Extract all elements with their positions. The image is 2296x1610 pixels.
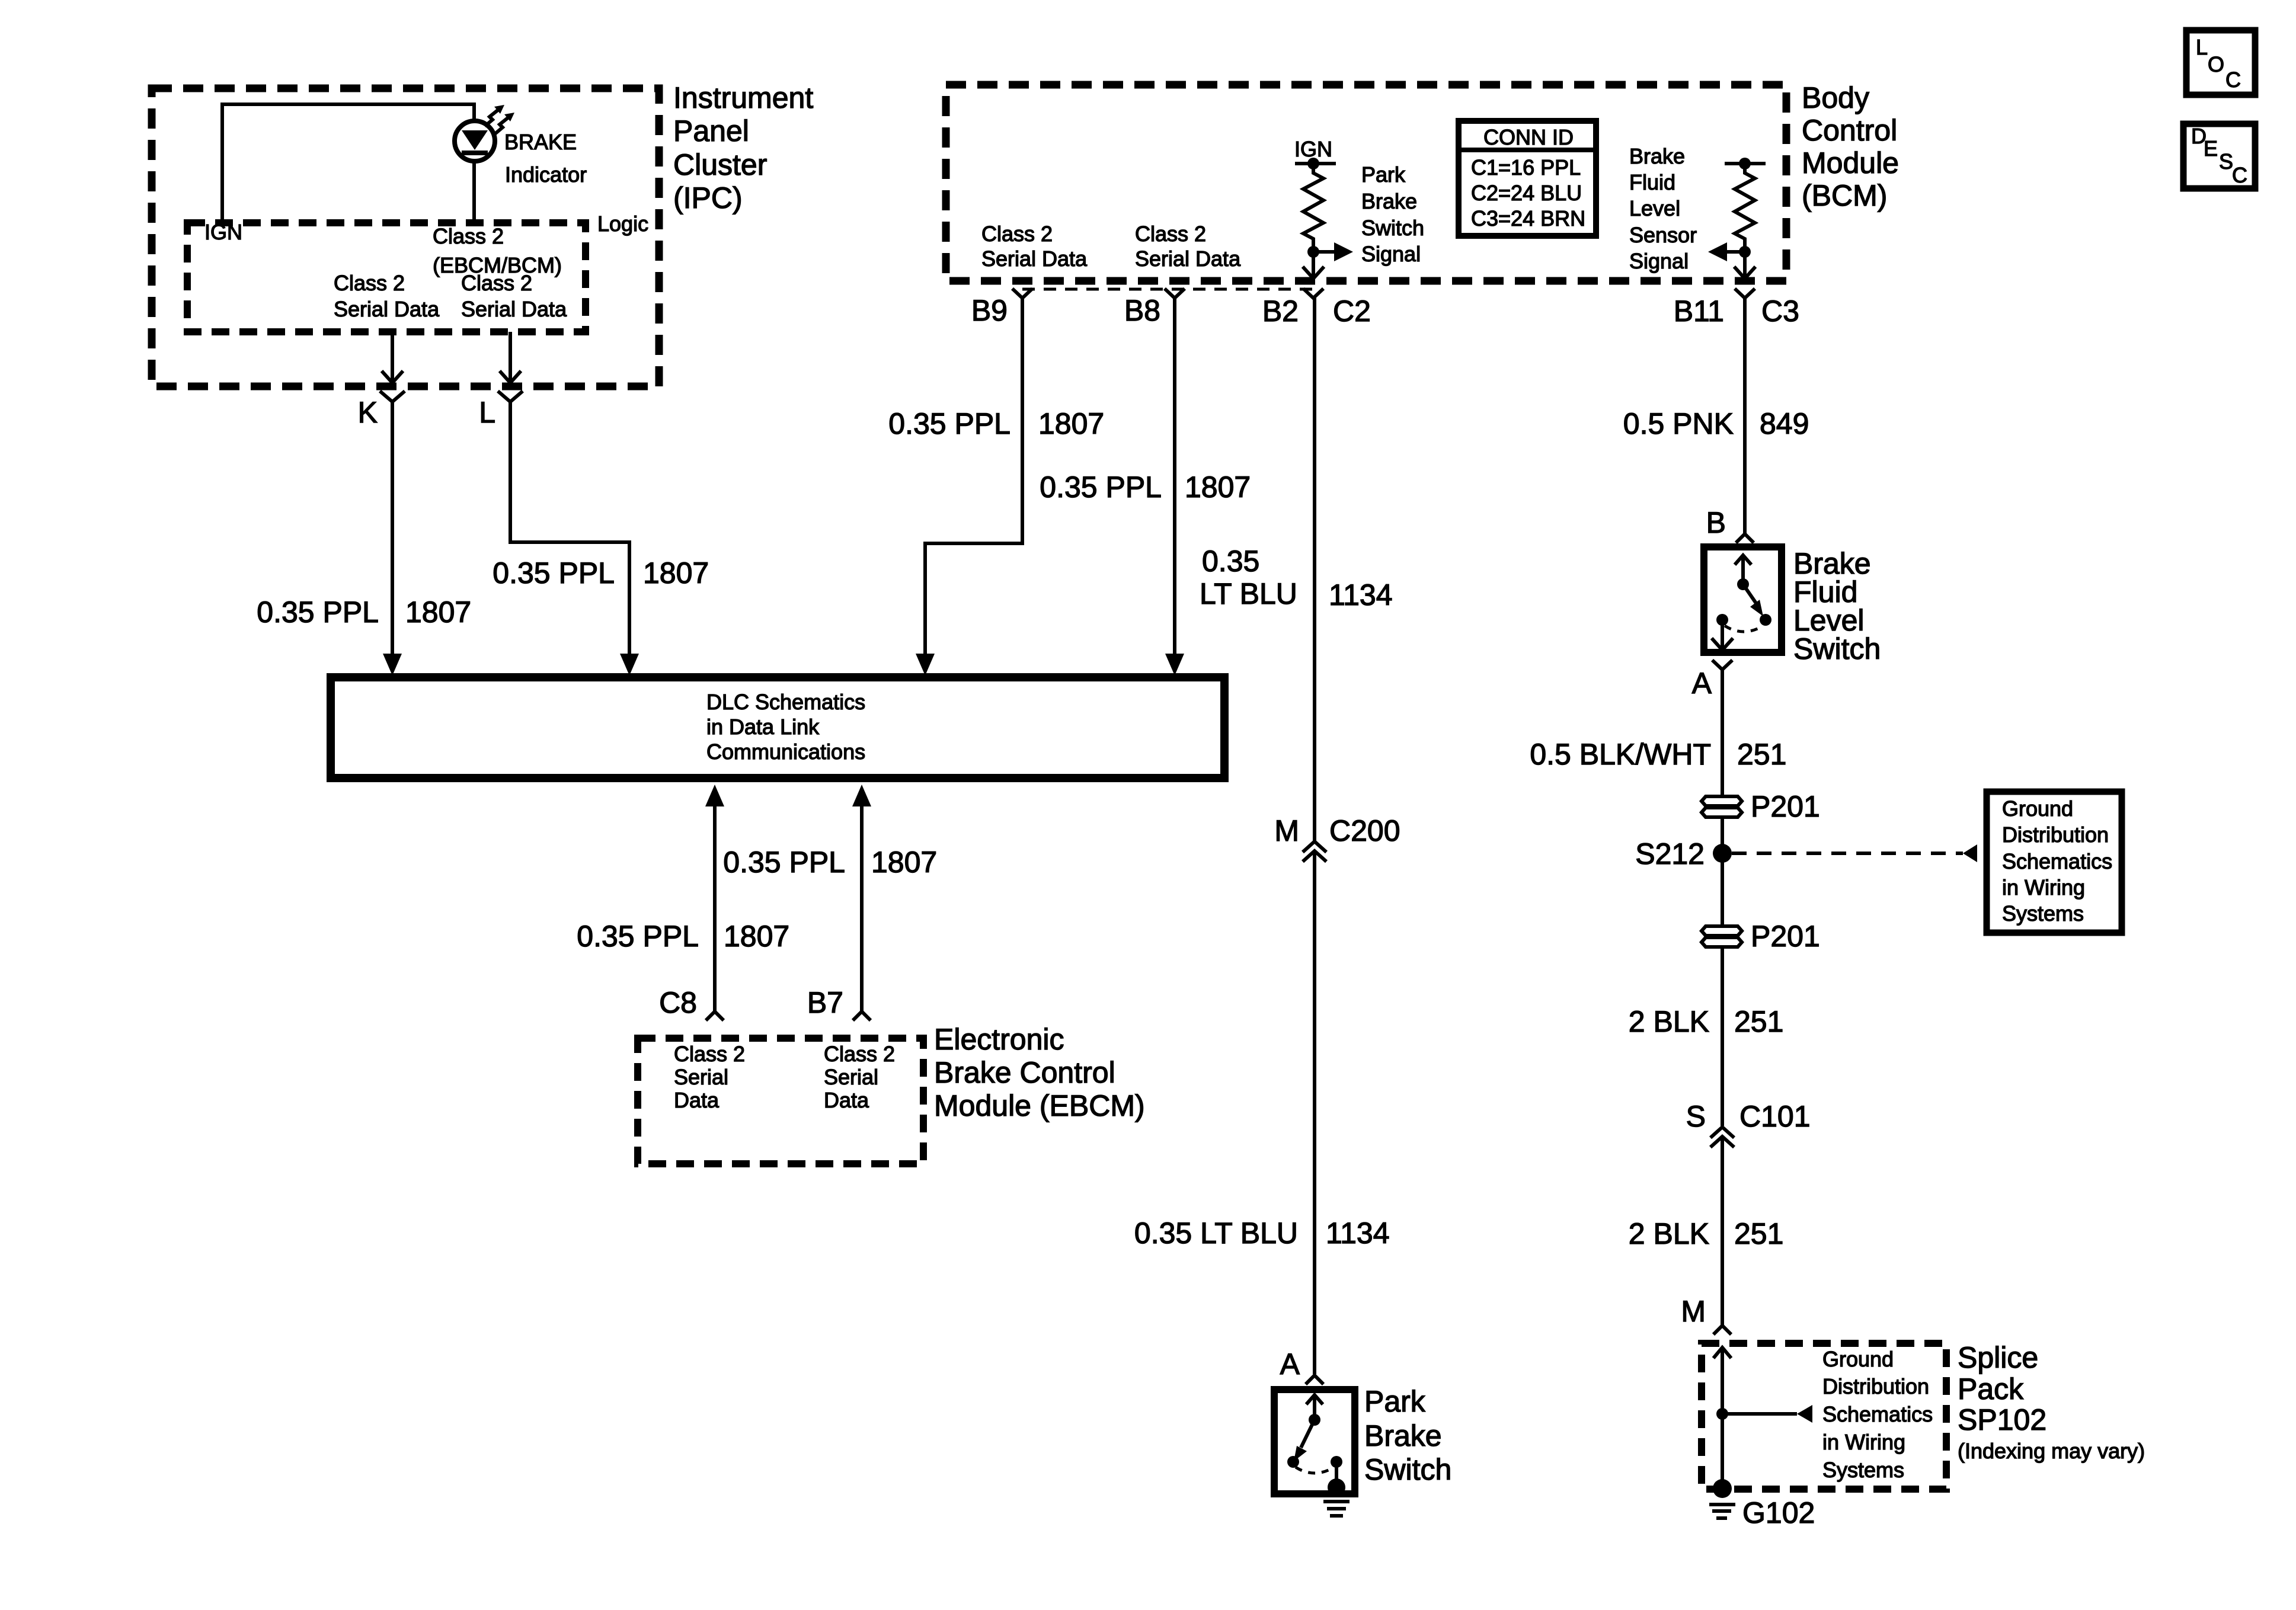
svg-text:B: B bbox=[1706, 506, 1726, 539]
svg-text:Class 2: Class 2 bbox=[334, 271, 405, 295]
LED light arrows bbox=[485, 110, 498, 126]
svg-text:1807: 1807 bbox=[643, 556, 709, 590]
svg-text:B2: B2 bbox=[1262, 295, 1299, 328]
connector pin K bbox=[380, 391, 405, 402]
svg-text:251: 251 bbox=[1737, 738, 1786, 771]
svg-text:P201: P201 bbox=[1751, 920, 1820, 953]
svg-text:Switch: Switch bbox=[1793, 632, 1881, 665]
svg-text:IGN: IGN bbox=[1294, 137, 1332, 161]
node junction dot bbox=[1307, 246, 1319, 258]
wire L inside IPC with arrow at box edge bbox=[509, 332, 512, 382]
svg-text:C2=24 BLU: C2=24 BLU bbox=[1471, 181, 1582, 205]
wire from EBCM B7 up into DLC bbox=[860, 805, 864, 1012]
svg-text:0.35 PPL: 0.35 PPL bbox=[888, 407, 1011, 440]
svg-text:C3: C3 bbox=[1761, 295, 1799, 328]
svg-text:0.35 PPL: 0.35 PPL bbox=[257, 596, 379, 629]
svg-text:Level: Level bbox=[1629, 196, 1680, 220]
svg-text:Signal: Signal bbox=[1361, 242, 1421, 266]
svg-text:Panel: Panel bbox=[673, 114, 749, 148]
svg-text:in Wiring: in Wiring bbox=[2002, 875, 2085, 900]
svg-text:S212: S212 bbox=[1635, 837, 1705, 870]
svg-text:Signal: Signal bbox=[1629, 249, 1689, 273]
svg-text:E: E bbox=[2204, 136, 2218, 161]
svg-text:A: A bbox=[1280, 1347, 1300, 1381]
svg-text:1134: 1134 bbox=[1329, 578, 1393, 612]
svg-text:Module (EBCM): Module (EBCM) bbox=[934, 1089, 1145, 1122]
wire B8 down to DLC bbox=[1173, 298, 1176, 655]
svg-text:Serial: Serial bbox=[674, 1065, 728, 1089]
LED diode triangle bbox=[462, 130, 488, 150]
ground symbol G102 bbox=[1709, 1503, 1735, 1506]
switch right contact dot bbox=[1760, 614, 1771, 626]
wire IGN to BRAKE indicator bbox=[222, 104, 474, 223]
connector pin B2 / C2 bbox=[1303, 289, 1323, 298]
svg-text:Ground: Ground bbox=[1822, 1347, 1894, 1371]
LED cathode bar bbox=[462, 151, 488, 155]
svg-text:C101: C101 bbox=[1739, 1100, 1811, 1133]
svg-text:Body: Body bbox=[1802, 81, 1869, 114]
svg-text:2 BLK: 2 BLK bbox=[1629, 1005, 1709, 1038]
svg-text:(Indexing may vary): (Indexing may vary) bbox=[1958, 1439, 2145, 1463]
svg-text:M: M bbox=[1681, 1295, 1706, 1328]
svg-text:251: 251 bbox=[1734, 1217, 1783, 1250]
svg-text:Class 2: Class 2 bbox=[674, 1042, 745, 1066]
svg-text:O: O bbox=[2208, 52, 2224, 76]
svg-text:2 BLK: 2 BLK bbox=[1629, 1217, 1709, 1250]
ground symbol below park brake switch bbox=[1323, 1500, 1350, 1503]
svg-text:C1=16 PPL: C1=16 PPL bbox=[1471, 155, 1581, 180]
svg-text:Park: Park bbox=[1361, 162, 1406, 187]
wire LED cathode to logic box bbox=[472, 161, 476, 223]
svg-text:0.35: 0.35 bbox=[1202, 545, 1259, 578]
svg-text:B7: B7 bbox=[807, 986, 843, 1019]
svg-text:Brake: Brake bbox=[1361, 189, 1417, 213]
switch right contact dot with stem bbox=[1331, 1456, 1342, 1468]
svg-text:Systems: Systems bbox=[1822, 1458, 1904, 1482]
svg-text:CONN ID: CONN ID bbox=[1483, 125, 1574, 149]
connector P201 lower grommet bbox=[1702, 926, 1742, 947]
svg-text:C200: C200 bbox=[1329, 814, 1400, 847]
svg-text:(BCM): (BCM) bbox=[1802, 179, 1887, 212]
svg-text:in Wiring: in Wiring bbox=[1822, 1430, 1905, 1454]
svg-text:SP102: SP102 bbox=[1958, 1403, 2046, 1436]
svg-text:Serial Data: Serial Data bbox=[1135, 247, 1241, 271]
svg-text:Sensor: Sensor bbox=[1629, 223, 1697, 247]
svg-text:M: M bbox=[1274, 814, 1299, 847]
svg-text:Park: Park bbox=[1364, 1385, 1426, 1418]
dashed reference line from S212 bbox=[1732, 852, 1963, 855]
connector P201 upper grommet bbox=[1702, 796, 1742, 817]
svg-text:G102: G102 bbox=[1742, 1496, 1815, 1529]
wire L down and over to DLC bbox=[510, 402, 629, 655]
arrow at box bottom edge bbox=[1712, 638, 1733, 650]
wire from EBCM C8 up into DLC bbox=[713, 805, 717, 1012]
svg-text:Brake Control: Brake Control bbox=[934, 1056, 1115, 1089]
svg-text:Schematics: Schematics bbox=[2002, 849, 2112, 873]
svg-text:Switch: Switch bbox=[1361, 216, 1424, 240]
svg-text:1807: 1807 bbox=[871, 846, 937, 879]
wire inside splice pack with up arrow bbox=[1713, 1347, 1731, 1358]
ground node G102 dot bbox=[1713, 1479, 1732, 1498]
svg-text:Fluid: Fluid bbox=[1629, 170, 1675, 194]
svg-text:Systems: Systems bbox=[2002, 901, 2084, 926]
reference arrow into ground distribution box bbox=[1963, 844, 1977, 862]
svg-text:IGN: IGN bbox=[204, 220, 242, 244]
svg-text:Pack: Pack bbox=[1958, 1372, 2024, 1406]
svg-text:LT BLU: LT BLU bbox=[1200, 577, 1297, 610]
svg-text:1807: 1807 bbox=[1038, 407, 1104, 440]
logic box inside IPC bbox=[187, 223, 586, 332]
resistor brake fluid sensor pull-up bbox=[1735, 164, 1755, 252]
reference line with arrow in splice pack bbox=[1722, 1412, 1797, 1416]
svg-text:Serial Data: Serial Data bbox=[334, 297, 440, 321]
connector pin B8 bbox=[1165, 289, 1185, 298]
svg-text:S: S bbox=[1686, 1100, 1706, 1133]
wire B11/C3 down to brake fluid level switch bbox=[1743, 298, 1747, 534]
svg-text:Instrument: Instrument bbox=[673, 81, 813, 114]
switch box: Brake Fluid Level Switch bbox=[1704, 547, 1782, 652]
svg-text:0.5 BLK/WHT: 0.5 BLK/WHT bbox=[1530, 738, 1711, 771]
wire B9 down and over to DLC bbox=[925, 298, 1022, 655]
connector pin L bbox=[498, 391, 523, 402]
svg-text:B8: B8 bbox=[1124, 294, 1160, 327]
wire B11 inside BCM with arrow at box edge bbox=[1743, 252, 1747, 277]
svg-text:Class 2: Class 2 bbox=[981, 222, 1053, 246]
switch pivot dot bbox=[1737, 578, 1749, 590]
svg-text:Brake: Brake bbox=[1364, 1419, 1442, 1452]
svg-text:Logic: Logic bbox=[597, 212, 648, 236]
connector pin B9 bbox=[1012, 289, 1032, 298]
wire K down to DLC bbox=[391, 402, 394, 655]
reference box: DLC Schematics in Data Link Communications bbox=[331, 677, 1224, 778]
svg-text:Class 2: Class 2 bbox=[824, 1042, 895, 1066]
node brake fluid sensor dot and bar bbox=[1725, 162, 1766, 165]
svg-text:1134: 1134 bbox=[1326, 1217, 1390, 1250]
svg-text:Class 2: Class 2 bbox=[461, 271, 532, 295]
svg-text:A: A bbox=[1692, 667, 1712, 700]
ground node dot of park brake switch bbox=[1328, 1478, 1345, 1496]
svg-text:0.35 PPL: 0.35 PPL bbox=[1040, 470, 1162, 504]
svg-text:Switch: Switch bbox=[1364, 1453, 1451, 1486]
svg-text:0.35 PPL: 0.35 PPL bbox=[577, 920, 699, 953]
svg-text:Data: Data bbox=[674, 1088, 720, 1112]
svg-text:in Data Link: in Data Link bbox=[706, 715, 820, 739]
wire C101 to splice pack bbox=[1721, 1139, 1724, 1326]
svg-text:B9: B9 bbox=[971, 294, 1008, 327]
svg-text:C: C bbox=[2232, 163, 2247, 187]
svg-text:0.35 PPL: 0.35 PPL bbox=[493, 556, 615, 590]
node IGN dot and bar bbox=[1295, 162, 1336, 165]
switch pivot dot bbox=[1309, 1414, 1320, 1426]
wire P201 to C101 bbox=[1721, 946, 1724, 1126]
signal arrow left: Brake Fluid Level Sensor Signal bbox=[1727, 250, 1745, 254]
switch moving contact arm with arrowhead bbox=[1743, 584, 1756, 603]
node junction dot bbox=[1739, 246, 1751, 258]
switch throw dashed arc bbox=[1725, 626, 1763, 632]
module box: Electronic Brake Control Module (EBCM) dashed outline bbox=[638, 1038, 923, 1164]
switch left contact dot bbox=[1287, 1456, 1299, 1468]
svg-text:Data: Data bbox=[824, 1088, 869, 1112]
svg-text:Module: Module bbox=[1802, 146, 1899, 180]
svg-text:Splice: Splice bbox=[1958, 1341, 2038, 1374]
switch contact arrow up bbox=[1735, 555, 1751, 565]
svg-text:K: K bbox=[358, 396, 378, 429]
wire B2 to C200 bbox=[1313, 298, 1316, 841]
svg-text:1807: 1807 bbox=[405, 596, 471, 629]
svg-text:Class 2: Class 2 bbox=[1135, 222, 1206, 246]
wire A down to P201 bbox=[1721, 670, 1724, 798]
svg-text:C8: C8 bbox=[659, 986, 697, 1019]
switch moving contact arm with arrowhead bbox=[1301, 1420, 1315, 1448]
svg-text:Schematics: Schematics bbox=[1822, 1402, 1933, 1426]
svg-text:0.35 LT BLU: 0.35 LT BLU bbox=[1134, 1217, 1298, 1250]
svg-text:Serial Data: Serial Data bbox=[461, 297, 567, 321]
svg-text:251: 251 bbox=[1734, 1005, 1783, 1038]
svg-text:Class 2: Class 2 bbox=[433, 224, 504, 248]
svg-text:C3=24 BRN: C3=24 BRN bbox=[1471, 206, 1585, 231]
svg-text:Distribution: Distribution bbox=[1822, 1374, 1929, 1398]
svg-text:B11: B11 bbox=[1674, 295, 1724, 328]
svg-text:0.5 PNK: 0.5 PNK bbox=[1623, 407, 1734, 440]
svg-text:1807: 1807 bbox=[724, 920, 789, 953]
connector pin B7 bbox=[853, 1012, 871, 1020]
junction dot in splice pack bbox=[1716, 1408, 1728, 1420]
svg-text:1807: 1807 bbox=[1185, 470, 1251, 504]
svg-text:L: L bbox=[479, 396, 495, 429]
connector C2 grouping dashed line bbox=[1022, 288, 1313, 291]
splice pack box: SP102 dashed outline bbox=[1702, 1343, 1946, 1489]
reference box: Ground Distribution Schematics in Wiring Systems bbox=[1987, 792, 2122, 933]
svg-text:Cluster: Cluster bbox=[673, 148, 767, 181]
svg-text:BRAKE: BRAKE bbox=[504, 130, 577, 154]
module box: Instrument Panel Cluster (IPC) dashed outline bbox=[152, 88, 659, 386]
svg-text:L: L bbox=[2196, 35, 2208, 59]
svg-text:(IPC): (IPC) bbox=[673, 181, 743, 215]
switch contact arrow up bbox=[1306, 1395, 1323, 1404]
svg-text:Communications: Communications bbox=[706, 740, 865, 764]
svg-text:C2: C2 bbox=[1333, 295, 1371, 328]
connector pin B11 / C3 bbox=[1735, 289, 1755, 298]
svg-text:P201: P201 bbox=[1751, 790, 1820, 823]
module box: Body Control Module (BCM) dashed outline bbox=[946, 85, 1786, 281]
legend box LOC bbox=[2186, 30, 2255, 95]
svg-text:Electronic: Electronic bbox=[934, 1023, 1064, 1056]
connector pin C8 bbox=[706, 1012, 724, 1020]
connector table CONN ID bbox=[1459, 121, 1596, 236]
svg-text:Indicator: Indicator bbox=[505, 162, 587, 187]
svg-text:S: S bbox=[2219, 149, 2233, 174]
svg-text:Ground: Ground bbox=[2002, 796, 2073, 821]
legend box DESC bbox=[2183, 124, 2255, 188]
signal arrow right: Park Brake Switch Signal bbox=[1313, 250, 1335, 254]
wire B2 inside BCM with arrow at box edge bbox=[1312, 252, 1315, 277]
wire P201 to S212 bbox=[1721, 816, 1724, 924]
switch box: Park Brake Switch bbox=[1274, 1390, 1355, 1494]
svg-text:Serial Data: Serial Data bbox=[981, 247, 1088, 271]
resistor park brake pull-up bbox=[1303, 164, 1323, 252]
wire C200 to park brake switch bbox=[1313, 853, 1316, 1374]
svg-text:Distribution: Distribution bbox=[2002, 822, 2109, 847]
splice S212 bbox=[1713, 844, 1732, 863]
wire K inside IPC with arrow at box edge bbox=[391, 332, 394, 382]
svg-text:Serial: Serial bbox=[824, 1065, 878, 1089]
svg-text:Brake: Brake bbox=[1629, 144, 1685, 168]
switch left contact dot with stem down bbox=[1716, 614, 1728, 626]
indicator lamp: BRAKE Indicator LED circle bbox=[455, 121, 495, 161]
svg-text:C: C bbox=[2225, 68, 2241, 92]
svg-text:DLC Schematics: DLC Schematics bbox=[706, 690, 865, 714]
svg-text:Control: Control bbox=[1802, 114, 1897, 147]
svg-text:0.35 PPL: 0.35 PPL bbox=[723, 846, 845, 879]
svg-text:849: 849 bbox=[1760, 407, 1809, 440]
switch throw dashed arc bbox=[1296, 1467, 1334, 1473]
